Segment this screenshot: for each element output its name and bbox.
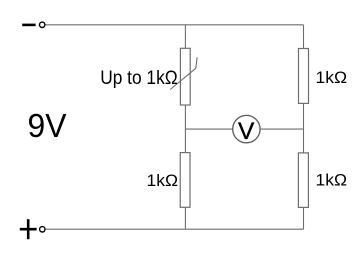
wire: right branch, lower-right resistor to bottom rail	[303, 207, 305, 229]
svg-text:V: V	[238, 118, 254, 145]
battery negative terminal (minus bar)	[22, 24, 35, 27]
svg-text:9V: 9V	[28, 107, 67, 144]
wire: left branch, lower-left resistor to bottom rail	[184, 207, 186, 229]
resistor R4 body (lower right, 1kΩ)	[298, 153, 308, 208]
wire: right branch, upper-right resistor to lower-right resistor (through mid node)	[303, 103, 305, 152]
variable resistor RV1 adjustment stroke	[170, 57, 197, 89]
wire: bridge right segment (voltmeter to right branch node)	[260, 128, 303, 130]
wire: bottom rail	[46, 228, 304, 230]
svg-text:Up to 1kΩ: Up to 1kΩ	[100, 67, 178, 89]
resistor R3 body (upper right, 1kΩ)	[299, 49, 309, 104]
resistor R2 body (lower left, 1kΩ)	[180, 153, 190, 208]
svg-text:1kΩ: 1kΩ	[316, 172, 348, 190]
svg-text:1kΩ: 1kΩ	[147, 172, 179, 190]
wire: left branch, top rail to variable resistor	[184, 25, 186, 49]
voltmeter M1 circle	[233, 115, 260, 142]
variable resistor RV1 body (Up to 1kΩ)	[180, 48, 190, 105]
wire: top rail	[45, 24, 303, 26]
battery positive terminal (plus sign)	[20, 219, 37, 239]
node: negative terminal circle	[40, 22, 45, 27]
wire: bridge left segment (left branch node to voltmeter)	[185, 128, 232, 130]
svg-text:1kΩ: 1kΩ	[316, 69, 348, 87]
wire: left branch, variable resistor to lower-left resistor (through mid node)	[184, 105, 186, 153]
wire: right branch, top rail to upper-right resistor	[303, 25, 305, 49]
node: positive terminal circle	[40, 227, 45, 232]
